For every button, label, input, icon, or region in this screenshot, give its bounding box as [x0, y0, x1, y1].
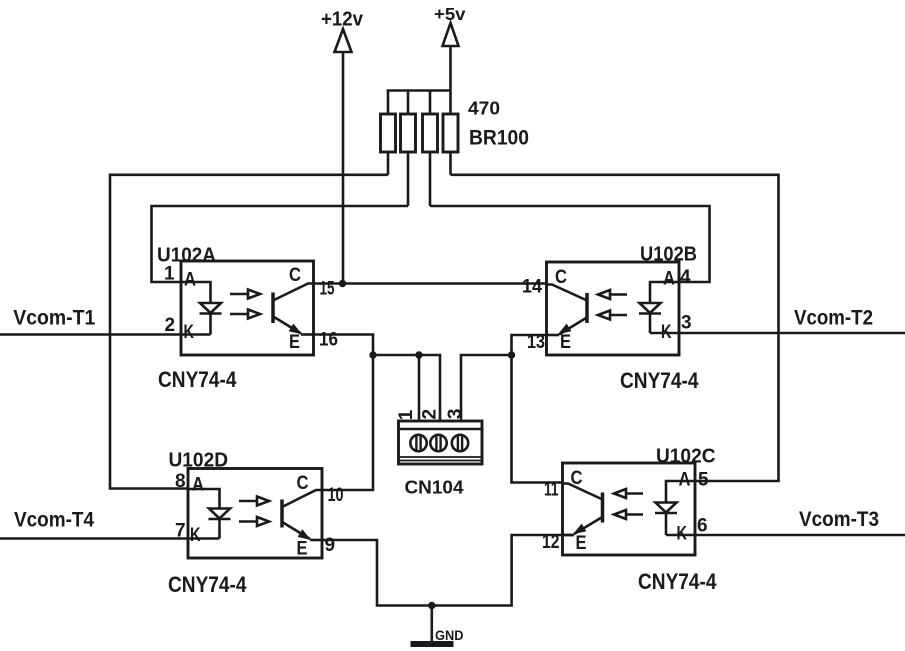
wire U102C pin11 link	[512, 355, 563, 483]
svg-text:2: 2	[165, 315, 176, 336]
wire inner frame left: R2 to U102A pin 1	[152, 206, 409, 282]
connector CN104 inner lines bottom	[399, 457, 483, 461]
svg-text:Vcom-T4: Vcom-T4	[14, 508, 94, 532]
CN104 screw terminal 3	[452, 435, 468, 451]
svg-text:A: A	[663, 269, 675, 290]
resistor BR100 element 1	[381, 114, 396, 152]
svg-text:8: 8	[175, 471, 186, 492]
svg-text:11: 11	[544, 480, 559, 501]
U102D transistor emitter	[283, 523, 310, 540]
svg-text:C: C	[289, 265, 301, 286]
wire R4 bottom lead	[449, 152, 452, 175]
svg-text:BR100: BR100	[469, 127, 529, 150]
U102C LED cathode bar	[655, 512, 677, 515]
svg-text:14: 14	[522, 277, 542, 298]
node junction ground bus	[428, 602, 435, 609]
U102D transistor collector	[283, 490, 322, 507]
node junction mid bus at CN104 pin1	[415, 351, 422, 358]
U102C LED diode	[656, 503, 677, 513]
resistor BR100 element 3	[423, 114, 438, 152]
svg-text:6: 6	[697, 516, 708, 537]
U102A transistor collector	[274, 284, 314, 301]
U102A transistor base bar	[271, 293, 275, 324]
U102A LED cathode lead	[209, 314, 212, 335]
op-to U102A optocoupler box	[181, 261, 314, 355]
resistor BR100 element 2	[401, 114, 416, 152]
U102B light arrow lower	[610, 314, 627, 317]
ground symbol bar	[411, 641, 454, 647]
svg-text:CNY74-4: CNY74-4	[620, 368, 699, 393]
svg-text:5: 5	[698, 470, 709, 491]
U102A transistor emitter	[274, 317, 301, 334]
svg-text:E: E	[560, 332, 571, 353]
svg-text:16: 16	[319, 330, 338, 351]
U102B transistor base bar	[585, 293, 589, 323]
CN104 screw terminal 2	[430, 435, 446, 451]
wire R2 bottom lead	[407, 152, 410, 206]
wire CN104 pin 1 drop	[418, 355, 421, 422]
U102A LED anode wire	[181, 282, 211, 303]
svg-text:CNY74-4: CNY74-4	[158, 367, 237, 392]
U102B transistor collector	[547, 285, 587, 301]
U102A light arrow lower	[230, 313, 248, 316]
wire R1 bottom lead	[387, 152, 390, 175]
svg-text:U102D: U102D	[169, 449, 229, 472]
svg-text:U102B: U102B	[640, 243, 697, 266]
svg-text:K: K	[677, 524, 688, 545]
resistor BR100 element 4	[443, 114, 458, 152]
node junction +12v on collector rail	[339, 280, 346, 287]
wire R2 top lead	[407, 91, 410, 115]
wire inner frame right: R3 to U102B pin 4	[430, 206, 710, 282]
svg-text:9: 9	[325, 535, 336, 556]
U102A LED cathode bar	[200, 312, 222, 315]
svg-text:Vcom-T2: Vcom-T2	[794, 306, 873, 330]
U102D LED anode wire	[188, 489, 220, 509]
U102B light arrow upper	[610, 293, 627, 296]
op-to U102C optocoupler box	[563, 463, 696, 555]
wire +5v down to resistor R4	[449, 46, 452, 114]
op-to U102D optocoupler box	[188, 469, 322, 559]
node junction mid bus at pin16 drop	[369, 351, 376, 358]
svg-text:K: K	[190, 525, 201, 546]
U102D light arrow lower	[239, 520, 257, 523]
svg-text:E: E	[297, 539, 308, 560]
U102C transistor emitter	[574, 518, 602, 535]
svg-text:7: 7	[175, 521, 186, 542]
U102C LED cathode lead	[665, 513, 668, 535]
svg-text:10: 10	[328, 485, 344, 506]
svg-text:2: 2	[419, 409, 440, 420]
wire collector rail U102A pin15 to U102B pin14	[314, 282, 547, 285]
power +5v arrow symbol	[443, 23, 459, 46]
connector CN104 body	[399, 421, 483, 464]
power +12v arrow symbol	[335, 29, 352, 52]
U102D LED cathode bar	[209, 518, 231, 521]
wire +12v rail down to collector rail	[342, 52, 345, 284]
node junction mid bus right	[508, 351, 515, 358]
U102D LED cathode lead	[218, 519, 221, 539]
U102C LED anode wire	[666, 481, 695, 503]
CN104 screw terminal 1	[410, 435, 426, 451]
svg-text:12: 12	[542, 532, 560, 553]
U102C transistor base bar	[601, 493, 605, 523]
svg-text:Vcom-T3: Vcom-T3	[799, 507, 879, 531]
wire outer frame right: R4 to U102C pin 5	[451, 175, 779, 481]
svg-text:3: 3	[681, 313, 692, 334]
svg-text:13: 13	[527, 332, 545, 353]
svg-text:C: C	[571, 468, 583, 489]
U102A light arrow upper	[230, 293, 248, 296]
svg-text:CN104: CN104	[405, 477, 465, 498]
U102A LED diode	[200, 303, 221, 313]
wire R1 top lead	[387, 91, 390, 115]
wire U102D pin9 to ground bus to U102C pin12	[322, 535, 574, 606]
svg-text:1: 1	[164, 264, 175, 285]
svg-text:470: 470	[468, 98, 500, 119]
svg-text:C: C	[297, 473, 309, 494]
wire U102A pin16 to mid bus	[314, 335, 374, 356]
svg-text:1: 1	[396, 409, 417, 420]
svg-text:A: A	[679, 470, 691, 491]
U102B transistor emitter	[559, 318, 586, 335]
op-to U102B optocoupler box	[547, 262, 680, 355]
U102C transistor collector	[563, 484, 602, 500]
U102D light arrow upper	[239, 500, 257, 503]
U102B LED anode wire	[650, 282, 679, 303]
svg-text:CNY74-4: CNY74-4	[638, 569, 717, 594]
svg-text:E: E	[576, 533, 587, 554]
connector CN104 inner line top	[399, 428, 483, 431]
svg-text:K: K	[184, 322, 195, 343]
U102D LED diode	[209, 509, 230, 519]
svg-text:Vcom-T1: Vcom-T1	[13, 305, 95, 329]
svg-text:3: 3	[445, 409, 466, 420]
wire outer frame left: R1 to U102D pin 8	[110, 175, 388, 489]
svg-text:K: K	[661, 322, 672, 343]
U102D transistor base bar	[280, 500, 284, 528]
wire Vcom-T3 from U102C pin 6	[666, 534, 905, 537]
wire resistor top bus	[387, 89, 452, 92]
wire Vcom-T4 to U102D pin 7	[0, 537, 220, 540]
U102B LED cathode lead	[649, 314, 652, 334]
U102B LED diode	[640, 303, 661, 313]
svg-text:CNY74-4: CNY74-4	[168, 572, 247, 597]
svg-text:A: A	[184, 270, 196, 291]
svg-text:4: 4	[680, 267, 691, 288]
wire mid bus left segment down to CN104 pin 2	[373, 355, 440, 422]
U102C light arrow upper	[626, 492, 643, 495]
svg-text:C: C	[555, 267, 567, 288]
wire CN104 pin 3 drop and mid bus right segment	[461, 355, 512, 422]
wire R3 top lead	[429, 91, 432, 115]
wire R3 bottom lead	[429, 152, 432, 206]
ground symbol stem	[430, 606, 433, 644]
wire U102D pin10 link	[322, 355, 373, 490]
U102B LED cathode bar	[639, 312, 661, 315]
svg-text:GND: GND	[435, 628, 464, 643]
svg-text:E: E	[289, 332, 300, 353]
svg-text:U102C: U102C	[656, 445, 716, 468]
wire U102B pin13 link	[512, 335, 547, 355]
wire Vcom-T1 to U102A pin 2	[0, 333, 211, 336]
svg-text:A: A	[192, 475, 204, 496]
svg-text:15: 15	[320, 279, 335, 300]
wire Vcom-T2 from U102B pin 3	[650, 332, 905, 335]
U102C light arrow lower	[626, 513, 643, 516]
